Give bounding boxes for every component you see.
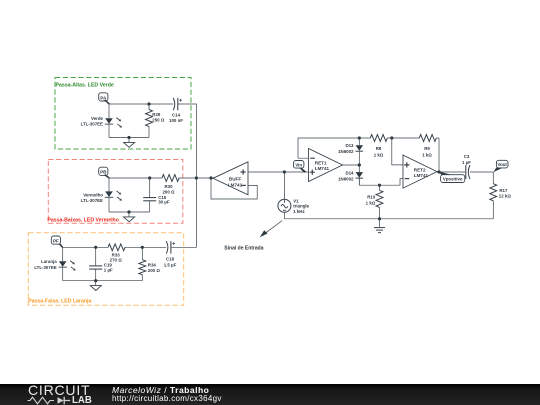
svg-text:R29: R29 (152, 112, 161, 117)
svg-text:Passa-Baixas. LED Vermelho: Passa-Baixas. LED Vermelho (47, 217, 119, 223)
wire RET1 feedback to top rail (298, 138, 359, 158)
logo CIRCUIT LAB (26, 383, 28, 385)
wire C3 to Vout node (470, 171, 493, 173)
svg-text:PB: PB (100, 170, 107, 175)
node R10 top junction (378, 184, 381, 187)
node Vpositivo junction (437, 170, 440, 173)
svg-text:1 µF: 1 µF (104, 268, 113, 273)
node Vpositivo flag (439, 172, 465, 183)
ground (green box) (124, 136, 135, 147)
node PB flag (99, 167, 110, 178)
node C19 top junction (94, 246, 97, 249)
LED D red body (105, 191, 122, 201)
wire PB top rail (109, 177, 162, 179)
svg-text:12 kΩ: 12 kΩ (499, 194, 512, 199)
svg-text:200 Ω: 200 Ω (162, 189, 175, 194)
node main junction (195, 176, 198, 179)
wire junction to BUFF output (196, 177, 213, 179)
svg-text:C3: C3 (464, 154, 470, 159)
svg-text:D14: D14 (345, 170, 354, 175)
svg-text:200 Ω: 200 Ω (148, 268, 161, 273)
svg-text:LTL-307EE: LTL-307EE (81, 122, 103, 127)
svg-text:270 Ω: 270 Ω (110, 257, 123, 262)
svg-text:RET1: RET1 (315, 161, 327, 166)
wire RET2 - input (359, 179, 403, 186)
svg-text:1 kΩ: 1 kΩ (366, 201, 376, 206)
dashed box Passa-Faixa (orange) (28, 233, 183, 306)
wire BUFF + input (248, 171, 284, 173)
wire D14 bottom leg (358, 178, 360, 185)
wire green bottom (109, 137, 149, 139)
svg-text:RET2: RET2 (414, 167, 426, 172)
svg-text:R8: R8 (376, 146, 382, 151)
wire BUFF feedback (211, 178, 257, 199)
capacitor C15 (143, 178, 156, 212)
svg-text:1 kΩ: 1 kΩ (374, 152, 384, 157)
resistor R8 (359, 135, 392, 142)
svg-text:1 µF: 1 µF (462, 160, 471, 165)
wire to RET1 + input (284, 171, 308, 173)
LED D green lead bottom (108, 124, 110, 137)
LED D orange lead top (62, 247, 64, 261)
wire bottom rail (284, 218, 493, 220)
svg-text:R9: R9 (424, 146, 430, 151)
svg-text:D13: D13 (345, 143, 354, 148)
resistor R10 (376, 185, 383, 219)
svg-text:30 µF: 30 µF (158, 199, 170, 204)
wire PF top rail (63, 246, 108, 248)
svg-text:LM741: LM741 (414, 173, 429, 178)
svg-text:Sinal de Entrada: Sinal de Entrada (224, 245, 263, 251)
svg-text:Passa-Faixa. LED Laranja: Passa-Faixa. LED Laranja (28, 298, 91, 304)
svg-text:Verde: Verde (91, 116, 104, 121)
LED D green lead top (108, 104, 110, 118)
op-amp BUFF LM741 (213, 162, 248, 195)
svg-text:R10: R10 (367, 195, 376, 200)
svg-text:Vermelho: Vermelho (83, 192, 103, 197)
LED D orange body (59, 261, 76, 271)
resistor R17 (490, 172, 497, 219)
svg-text:C14: C14 (172, 113, 181, 118)
svg-text:R17: R17 (499, 188, 508, 193)
diode D13 (356, 138, 364, 165)
wire orange bottom (63, 280, 143, 282)
node RET1 output junction (358, 163, 361, 166)
footer bar (0, 384, 540, 405)
svg-text:Vout: Vout (497, 162, 507, 167)
LED D red lead top (108, 178, 110, 191)
wire PA top rail (109, 103, 173, 105)
svg-text:Vpositivo: Vpositivo (443, 177, 463, 182)
svg-text:Vin: Vin (295, 162, 302, 167)
ground (orange box) (90, 279, 101, 290)
capacitor C18 (166, 241, 175, 253)
node R29 top junction (147, 102, 150, 105)
ground (earth, below R10) (374, 219, 385, 233)
svg-text:LM741: LM741 (315, 166, 330, 171)
svg-text:triangle: triangle (293, 204, 309, 209)
svg-text:PA: PA (100, 95, 107, 100)
svg-text:LM741: LM741 (228, 182, 243, 187)
node D13 top junction (358, 136, 361, 139)
svg-text:BUFF: BUFF (229, 176, 241, 181)
wire RET1 output (343, 164, 360, 166)
node ground rail junction (378, 217, 381, 220)
LED D orange lead bottom (62, 267, 64, 281)
wire C14 to corner down (178, 104, 197, 178)
svg-text:Laranja: Laranja (41, 259, 57, 264)
node PA flag (99, 93, 110, 105)
svg-text:Passa-Altas. LED Verde: Passa-Altas. LED Verde (56, 82, 114, 88)
node BUFF output junction (209, 176, 212, 179)
node PF flag (51, 236, 63, 248)
op-amp RET1 LM741 (309, 149, 343, 182)
resistor R29 (146, 104, 153, 138)
source V1 triangle (278, 172, 291, 219)
node Vin flag (294, 161, 307, 173)
resistor R33 (108, 244, 166, 251)
svg-text:1N6002: 1N6002 (338, 176, 354, 181)
svg-text:LTL-307EE: LTL-307EE (34, 265, 56, 270)
svg-text:1 kHz: 1 kHz (293, 209, 305, 214)
op-amp RET2 LM741 (403, 155, 437, 188)
footer text (112, 386, 209, 394)
svg-text:V1: V1 (293, 198, 299, 203)
dashed box Passa-Altas (green) (55, 78, 191, 150)
LED D red lead bottom (108, 197, 110, 212)
wire R9 down to output (438, 138, 440, 172)
ground (red box) (124, 210, 135, 221)
wire C18 to riser (171, 178, 197, 247)
diode D14 (356, 165, 364, 185)
LED D green body (105, 118, 122, 128)
capacitor C14 (173, 98, 182, 110)
node V1 top junction (283, 170, 286, 173)
wire RET2 output node (437, 171, 465, 173)
svg-text:R34: R34 (148, 263, 157, 268)
dashed box Passa-Baixas (red) (48, 160, 183, 224)
svg-text:250 Ω: 250 Ω (152, 117, 165, 122)
wire junction to RET2 + input (392, 138, 403, 165)
node C15 top junction (148, 176, 151, 179)
resistor R34 (139, 247, 146, 280)
resistor R30 (162, 175, 196, 182)
svg-text:LTL-307EE: LTL-307EE (81, 198, 103, 203)
capacitor C19 (89, 247, 102, 280)
annotation arrow Sinal de Entrada (260, 221, 283, 238)
svg-text:PF: PF (53, 239, 59, 244)
svg-text:1N6002: 1N6002 (338, 149, 354, 154)
svg-text:C18: C18 (166, 256, 175, 261)
resistor R9 (392, 135, 439, 142)
wire red bottom (109, 211, 150, 213)
svg-text:1 kΩ: 1 kΩ (422, 152, 432, 157)
node Vout flag (493, 160, 508, 172)
capacitor C3 (466, 165, 470, 179)
svg-text:100 nF: 100 nF (169, 118, 183, 123)
svg-text:1.5 µF: 1.5 µF (164, 262, 177, 267)
node R8 R9 junction (390, 136, 393, 139)
node R34 top junction (141, 246, 144, 249)
